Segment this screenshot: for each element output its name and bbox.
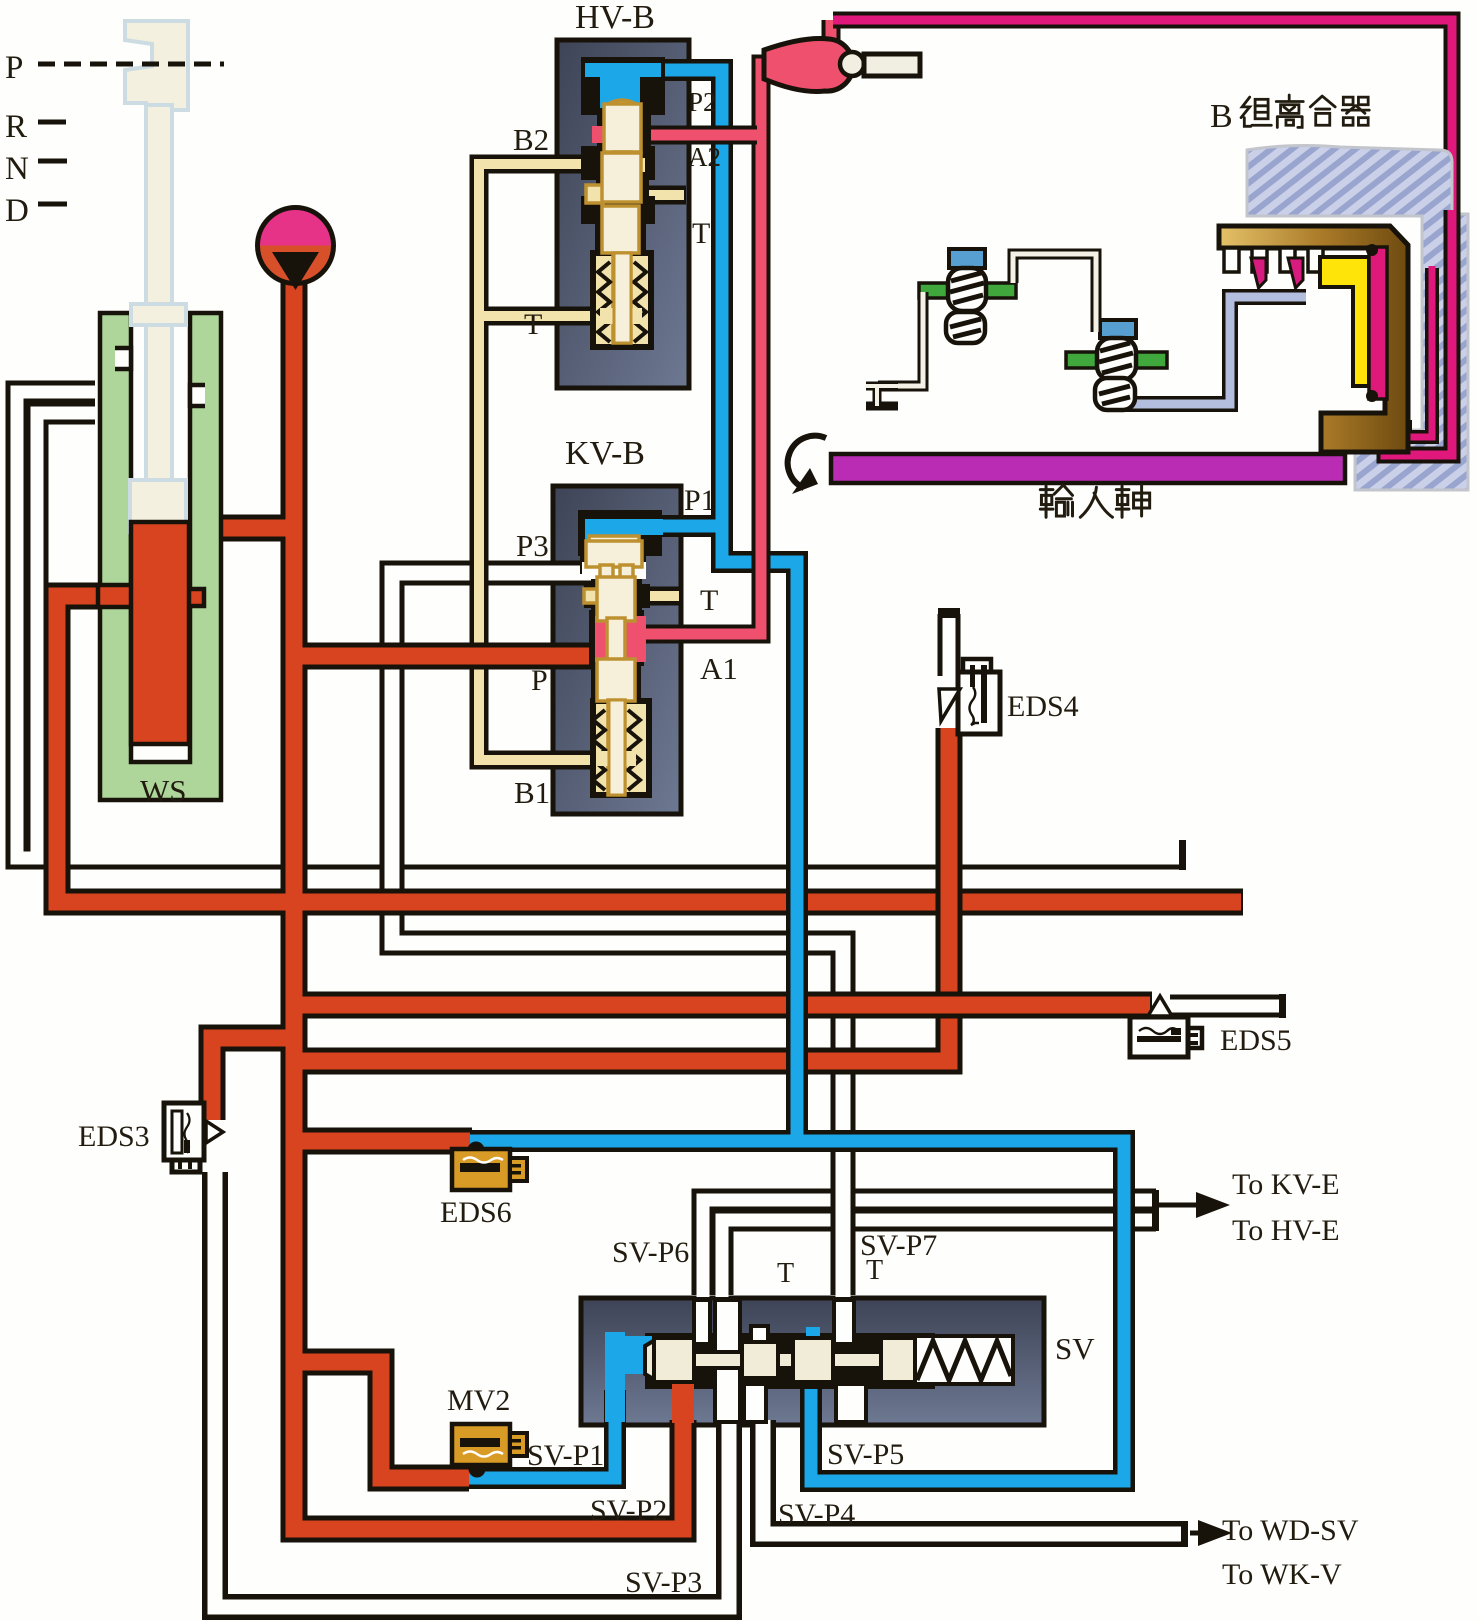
svg-text:A1: A1 bbox=[700, 651, 738, 686]
svg-text:To WD-SV: To WD-SV bbox=[1222, 1514, 1359, 1547]
svg-text:SV-P4: SV-P4 bbox=[778, 1498, 855, 1531]
svg-text:SV-P3: SV-P3 bbox=[625, 1566, 702, 1599]
svg-text:B1: B1 bbox=[514, 775, 550, 810]
svg-text:MV2: MV2 bbox=[447, 1384, 510, 1417]
svg-text:R: R bbox=[5, 109, 27, 145]
svg-text:KV-B: KV-B bbox=[565, 435, 645, 472]
svg-text:N: N bbox=[5, 151, 29, 187]
svg-text:D: D bbox=[5, 193, 29, 229]
svg-text:EDS4: EDS4 bbox=[1007, 690, 1079, 723]
svg-text:WS: WS bbox=[140, 773, 187, 808]
svg-text:To WK-V: To WK-V bbox=[1222, 1558, 1342, 1591]
svg-text:EDS5: EDS5 bbox=[1220, 1024, 1292, 1057]
svg-text:P: P bbox=[531, 664, 548, 697]
svg-text:P3: P3 bbox=[516, 528, 549, 563]
svg-text:To KV-E: To KV-E bbox=[1232, 1168, 1340, 1201]
svg-text:T: T bbox=[524, 308, 542, 341]
svg-text:EDS6: EDS6 bbox=[440, 1196, 512, 1229]
svg-text:SV-P6: SV-P6 bbox=[612, 1236, 689, 1269]
svg-text:SV-P5: SV-P5 bbox=[827, 1438, 904, 1471]
svg-text:A2: A2 bbox=[688, 142, 721, 172]
svg-text:P1: P1 bbox=[684, 484, 716, 517]
svg-text:HV-B: HV-B bbox=[575, 0, 655, 36]
svg-text:SV-P1: SV-P1 bbox=[527, 1439, 604, 1472]
svg-text:T: T bbox=[700, 584, 718, 617]
svg-text:SV: SV bbox=[1055, 1331, 1095, 1366]
svg-text:SV-P2: SV-P2 bbox=[590, 1494, 667, 1527]
svg-text:P2: P2 bbox=[688, 87, 717, 117]
svg-text:T: T bbox=[777, 1258, 794, 1289]
svg-text:To HV-E: To HV-E bbox=[1232, 1214, 1340, 1247]
svg-text:T: T bbox=[866, 1255, 883, 1286]
svg-text:B2: B2 bbox=[513, 122, 549, 157]
svg-text:B: B bbox=[1210, 98, 1233, 135]
svg-text:T: T bbox=[692, 217, 710, 250]
svg-text:EDS3: EDS3 bbox=[78, 1120, 150, 1153]
svg-text:P: P bbox=[5, 50, 23, 86]
